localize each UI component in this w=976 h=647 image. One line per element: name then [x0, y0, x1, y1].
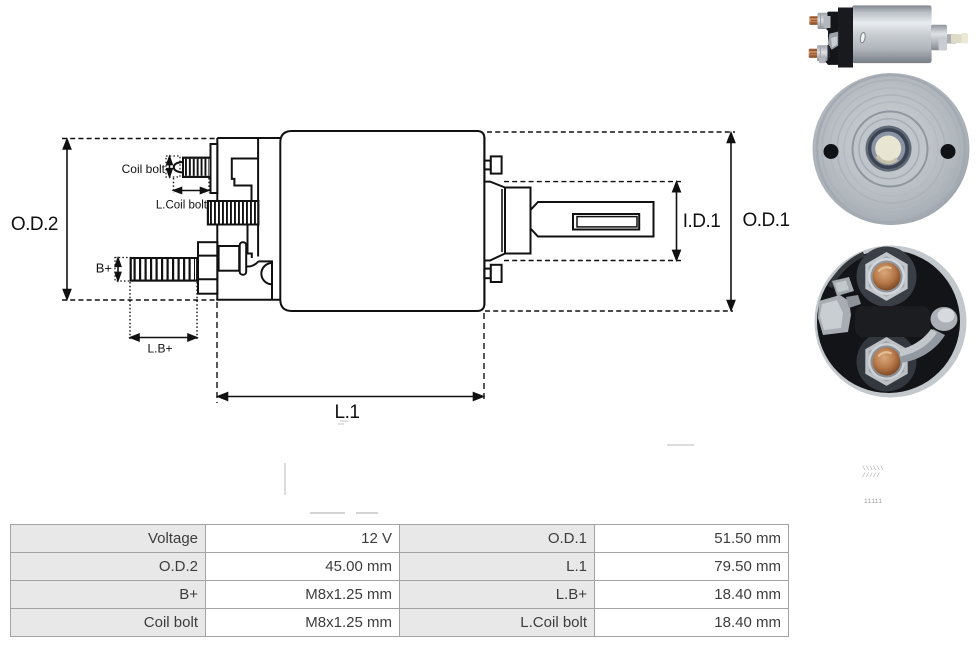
svg-text:\\\\\\: \\\\\\ — [862, 465, 884, 472]
svg-text:B+: B+ — [96, 261, 112, 276]
svg-text:L.B+: L.B+ — [147, 342, 172, 356]
svg-text://///: ///// — [862, 472, 880, 479]
svg-text:I.D.1: I.D.1 — [683, 211, 721, 232]
svg-text:11111: 11111 — [864, 498, 882, 505]
svg-text:O.D.2: O.D.2 — [11, 214, 58, 235]
svg-text:Coil bolt: Coil bolt — [122, 162, 166, 176]
svg-text:L.Coil bolt: L.Coil bolt — [156, 200, 208, 212]
svg-text:L.1: L.1 — [335, 402, 360, 423]
svg-text:O.D.1: O.D.1 — [742, 210, 789, 231]
